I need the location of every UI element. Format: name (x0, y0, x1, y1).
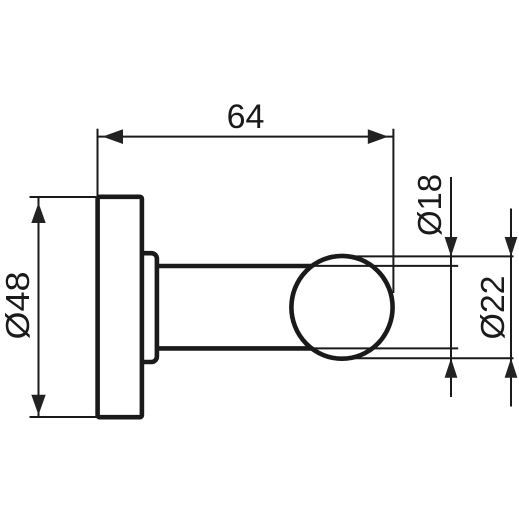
svg-text:Ø48: Ø48 (0, 272, 36, 340)
dim O22 upper arrowhead (505, 237, 518, 256)
extension line ball top tangent (O22 upper) (342, 255, 514, 257)
collar (mounting hub behind plate) (134, 253, 157, 362)
dim O48 top extension line (30, 196, 97, 198)
dim 64 right extension line (392, 129, 394, 293)
dim O22 dimension line (510, 209, 512, 407)
dim 64 left extension line (97, 129, 99, 196)
dim O18 upper arrowhead (445, 237, 458, 256)
svg-text:Ø18: Ø18 (411, 174, 448, 236)
stem top outline (157, 264, 330, 269)
extension line ball bottom tangent (O22 lower) (342, 357, 514, 359)
dim O48 bottom arrowhead (31, 395, 45, 415)
extension line stem top (O18 upper) (302, 265, 458, 267)
dim O18 lower arrowhead (445, 358, 458, 377)
extension line stem bottom (O18 lower) (302, 347, 458, 349)
dim O48 bottom extension line (30, 416, 98, 418)
dim 64 dimension line (98, 136, 393, 138)
svg-text:Ø22: Ø22 (474, 276, 511, 340)
dim O18 dimension line (450, 177, 452, 397)
dim O48 top arrowhead (31, 203, 45, 223)
dim 64 right arrowhead (368, 129, 389, 144)
ball end of hook (291, 256, 392, 359)
stem bottom outline (157, 346, 330, 351)
dim O48 dimension line (38, 198, 40, 417)
svg-text:64: 64 (227, 98, 265, 136)
dim O22 lower arrowhead (505, 358, 518, 377)
dim 64 left arrowhead (103, 129, 124, 144)
wall plate (side view) (98, 197, 142, 417)
